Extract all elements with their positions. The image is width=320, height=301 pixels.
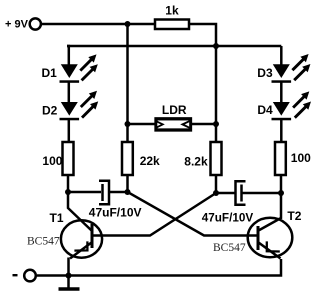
terminal minus xyxy=(24,270,36,282)
resistor 100 left xyxy=(63,142,74,175)
svg-text:D2: D2 xyxy=(42,103,58,117)
LDR photoresistor body xyxy=(156,119,191,130)
terminal +9V xyxy=(30,18,41,29)
wire 100 right to node D xyxy=(280,175,283,193)
ground stub xyxy=(67,276,70,288)
wire 22k to node B xyxy=(126,175,129,192)
wire D2 to left 100 resistor xyxy=(68,120,71,142)
svg-text:T1: T1 xyxy=(50,211,64,225)
svg-text:BC547: BC547 xyxy=(213,242,246,254)
transistor T2 emitter arrowhead xyxy=(267,241,280,251)
wire LDR right lead xyxy=(190,123,216,126)
terminal minus dash xyxy=(13,274,18,276)
LED D4 light arrow lower xyxy=(295,102,311,118)
svg-text:BC547: BC547 xyxy=(27,236,60,248)
LED D3 cathode bar xyxy=(272,80,292,83)
wire top rail from +9V to node at x=128 xyxy=(41,23,128,26)
resistor 22k xyxy=(122,142,133,175)
wire 8.2k to node C xyxy=(215,175,218,193)
LED D3 triangle xyxy=(273,64,290,78)
junction node ground xyxy=(66,273,72,279)
ground bar xyxy=(59,287,80,291)
svg-text:D4: D4 xyxy=(257,103,273,117)
wire cross-couple C to T1 base xyxy=(93,193,216,236)
junction node LDR left xyxy=(125,121,131,127)
LED D2 light arrow lower xyxy=(82,101,98,117)
svg-text:22k: 22k xyxy=(140,154,160,168)
wire 100 left to node A xyxy=(67,175,70,192)
capacitor C2 bracket plate xyxy=(236,181,246,205)
wire LDR left lead xyxy=(128,123,156,126)
LDR inner left notch xyxy=(157,123,161,126)
svg-text:47uF/10V: 47uF/10V xyxy=(202,212,254,225)
resistor 100 right xyxy=(275,142,286,175)
LED D4 cathode bar xyxy=(272,118,292,121)
wire capacitor C2 to node D xyxy=(243,192,282,195)
svg-text:D3: D3 xyxy=(257,66,273,80)
wire cross-couple B to T2 base xyxy=(128,192,258,236)
transistor T2 circle xyxy=(248,218,293,257)
LED D2 triangle xyxy=(61,102,78,116)
junction node C xyxy=(213,190,219,196)
svg-text:8.2k: 8.2k xyxy=(184,154,208,168)
transistor T1 collector lead xyxy=(68,192,92,231)
capacitor C1 47uF left plate xyxy=(101,184,104,201)
svg-text:100: 100 xyxy=(42,154,62,168)
LED D4 triangle xyxy=(273,102,290,116)
wire second rail xyxy=(67,45,281,48)
wire T2 emitter to ground rail corner xyxy=(37,259,281,276)
wire 1k right lead to corner xyxy=(189,24,216,46)
junction node LDR right xyxy=(213,121,219,127)
wire left LED chain drop from rail xyxy=(67,46,69,65)
junction node B xyxy=(125,189,131,195)
wire D4 to right 100 resistor xyxy=(280,120,283,142)
junction node top rail x=128 xyxy=(125,21,131,27)
wire from node to 1k resistor xyxy=(128,23,156,26)
junction node rail2 x=216 xyxy=(213,43,219,49)
transistor T1 base bar xyxy=(91,224,94,248)
transistor T2 base bar xyxy=(257,226,260,250)
transistor T1 circle xyxy=(61,220,102,257)
wire right LED chain drop from rail xyxy=(280,46,283,65)
svg-text:+ 9V: + 9V xyxy=(5,19,29,31)
LDR inner right notch xyxy=(185,122,189,126)
wire capacitor C1 to node B xyxy=(110,191,128,194)
LED D2 light arrow upper xyxy=(81,91,97,107)
svg-text:LDR: LDR xyxy=(162,103,187,117)
LED D1 light arrow upper xyxy=(80,54,96,70)
wire node A to capacitor C1 xyxy=(68,191,101,194)
LDR inner right arrow xyxy=(180,120,189,128)
LED D3 light arrow upper xyxy=(292,54,308,70)
wire T1 emitter to ground rail xyxy=(67,258,70,276)
LED D4 light arrow upper xyxy=(293,91,309,107)
wire D3-D4 link xyxy=(280,83,283,103)
wire D1-D2 link xyxy=(68,83,71,103)
capacitor C1 bracket plate xyxy=(99,181,109,205)
resistor 8.2k xyxy=(211,142,222,175)
LDR inner left arrow xyxy=(157,121,165,128)
junction node A xyxy=(65,189,71,195)
svg-text:D1: D1 xyxy=(42,66,58,80)
transistor T1 emitter arrowhead xyxy=(74,241,87,250)
transistor T2 collector lead xyxy=(259,193,282,231)
transistor T2 emitter lead xyxy=(259,243,281,259)
transistor T1 emitter lead xyxy=(70,243,92,259)
junction node D xyxy=(278,190,284,196)
svg-text:1k: 1k xyxy=(165,3,179,17)
LED D1 light arrow lower xyxy=(82,64,98,80)
LED D1 cathode bar xyxy=(60,80,80,83)
wire right vertical bus x=216 (to 8.2k) xyxy=(215,46,218,142)
LED D2 cathode bar xyxy=(60,118,80,121)
LED D3 light arrow lower xyxy=(294,64,310,80)
wire left vertical bus x=128 (node to 22k) xyxy=(126,24,129,142)
capacitor C2 right plate xyxy=(240,185,243,202)
resistor R 1k xyxy=(155,20,189,30)
svg-text:T2: T2 xyxy=(287,209,301,223)
svg-text:100: 100 xyxy=(291,151,311,165)
wire node C to capacitor C2 xyxy=(216,192,235,195)
LED D1 triangle xyxy=(61,64,78,78)
svg-text:47uF/10V: 47uF/10V xyxy=(89,206,142,220)
